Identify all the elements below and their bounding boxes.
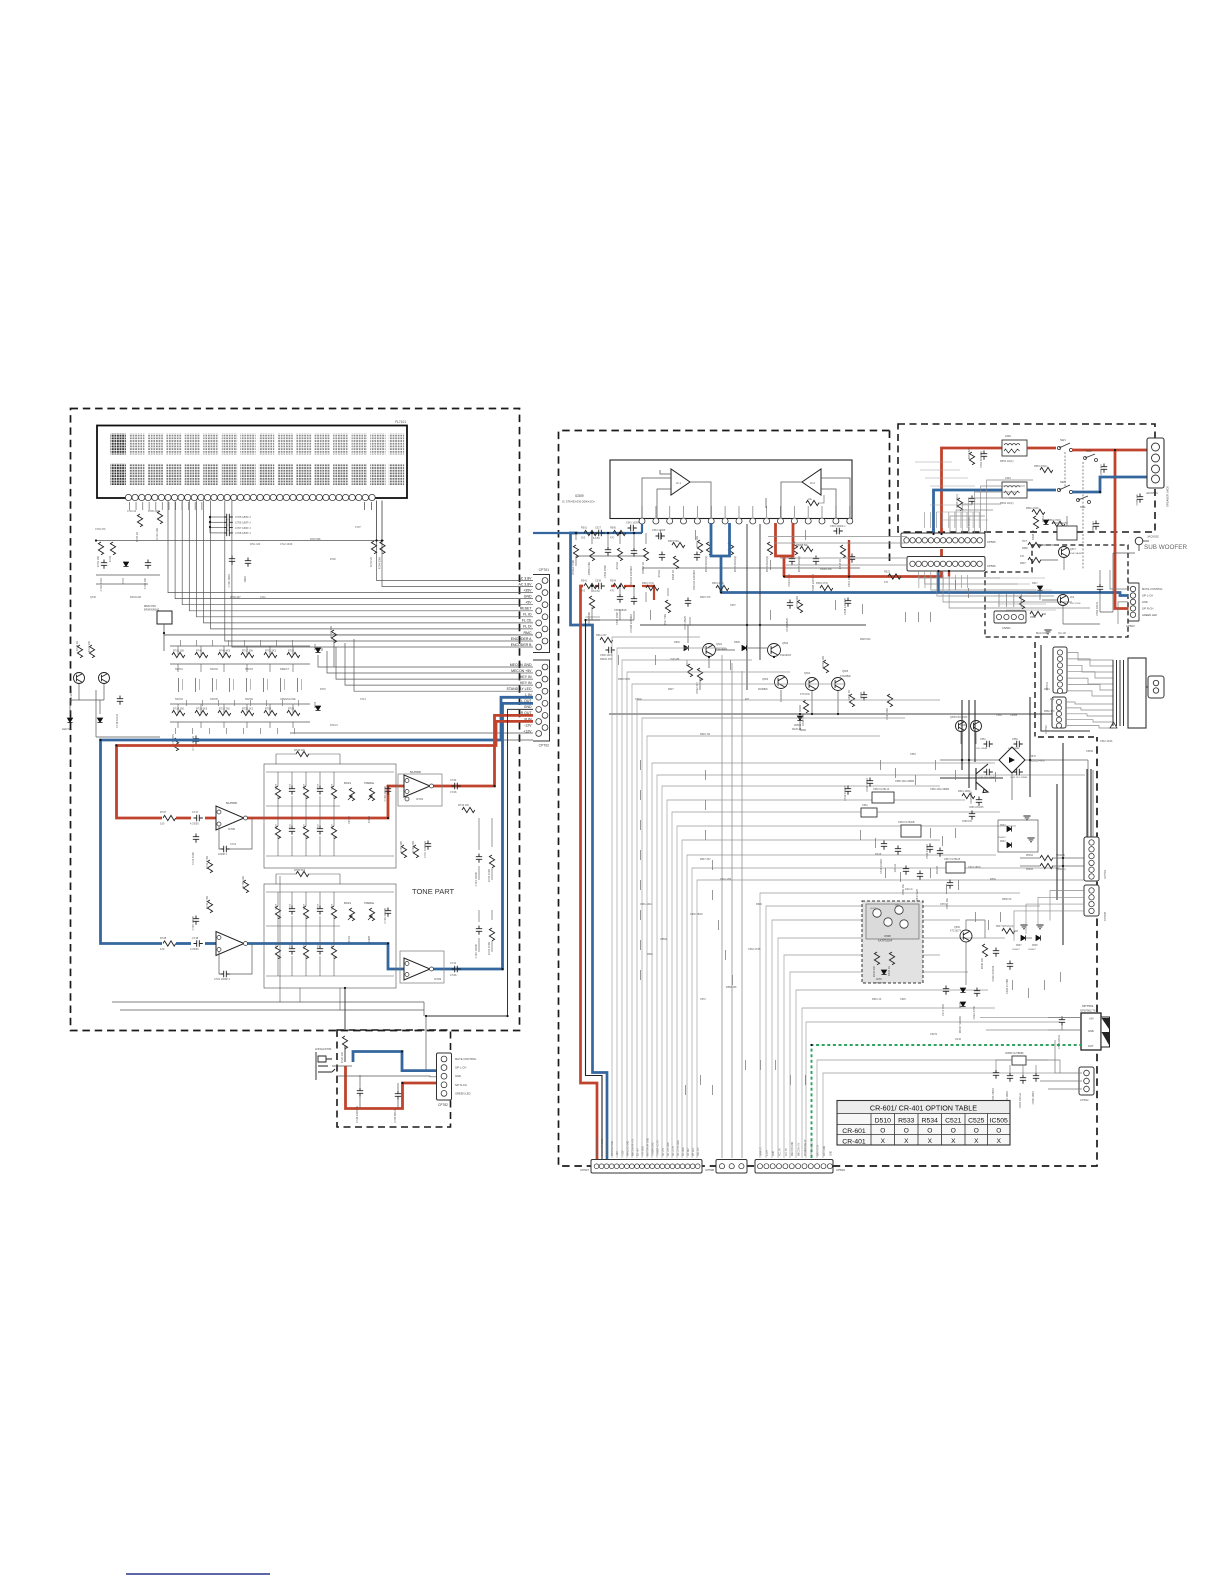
wire optical (green dashed) bbox=[812, 1045, 1082, 1158]
capacitor C744 bbox=[476, 854, 482, 863]
svg-text:C558 100n-56MM: C558 100n-56MM bbox=[895, 780, 914, 783]
svg-text:FL ID: FL ID bbox=[523, 613, 532, 617]
wire red speaker R run bbox=[784, 549, 942, 577]
svg-text:CP507: CP507 bbox=[580, 1168, 589, 1172]
resistor R743 bbox=[462, 807, 475, 812]
svg-text:470: 470 bbox=[884, 581, 889, 584]
svg-text:R517 5K3: R517 5K3 bbox=[663, 613, 667, 625]
resistor R530A bbox=[573, 545, 578, 558]
resistor R535 bbox=[1040, 855, 1053, 860]
transistor Q509 bbox=[971, 721, 982, 732]
svg-text:100n-K: 100n-K bbox=[905, 888, 913, 891]
svg-text:R516 47(1): R516 47(1) bbox=[642, 582, 654, 585]
svg-text:GND: GND bbox=[524, 594, 532, 598]
svg-text:D2 GND: D2 GND bbox=[683, 1147, 685, 1156]
wire blue tone stage1 bbox=[176, 942, 191, 945]
resistor R704 bbox=[110, 542, 115, 555]
capacitor C519 bbox=[881, 841, 887, 850]
connector CP509 bbox=[755, 1160, 845, 1174]
diode D540 bbox=[960, 988, 965, 992]
svg-text:C551: C551 bbox=[980, 738, 986, 741]
resistor R512 bbox=[706, 542, 711, 555]
svg-text:JACK501: JACK501 bbox=[1146, 491, 1158, 495]
svg-text:C527b: C527b bbox=[930, 1033, 938, 1036]
wire bbox=[1040, 591, 1100, 624]
svg-text:SW701: SW701 bbox=[175, 668, 184, 671]
svg-text:R596: R596 bbox=[1022, 547, 1028, 550]
svg-text:IC505: IC505 bbox=[990, 1118, 1008, 1125]
svg-text:R759: R759 bbox=[265, 708, 272, 711]
svg-text:C560 100n-56MM: C560 100n-56MM bbox=[930, 788, 949, 791]
svg-text:O: O bbox=[974, 1128, 979, 1135]
capacitor C703 bbox=[145, 560, 151, 569]
connector CP50B bbox=[1084, 885, 1107, 921]
diode D507 bbox=[1021, 935, 1025, 940]
capacitor C533 bbox=[1007, 1073, 1013, 1082]
headphone board boundary (dashed) bbox=[337, 1030, 451, 1127]
op-amp ch.2 bbox=[802, 469, 821, 495]
wire bus to HP box bbox=[344, 988, 346, 1030]
svg-text:ENCODER B: ENCODER B bbox=[511, 643, 532, 647]
wire blue input segments bbox=[533, 532, 642, 534]
capacitor C552 bbox=[981, 451, 987, 460]
svg-text:C543 16V−39MM: C543 16V−39MM bbox=[1010, 777, 1027, 779]
svg-text:IC701: IC701 bbox=[416, 797, 424, 801]
svg-text:C722 1000P-J: C722 1000P-J bbox=[214, 978, 231, 981]
switch SW3 bbox=[1084, 457, 1087, 460]
svg-text:R752 100K: R752 100K bbox=[487, 942, 491, 955]
svg-text:OUT: OUT bbox=[1088, 1044, 1094, 1048]
capacitor C510B2 bbox=[631, 596, 637, 605]
wire bbox=[688, 625, 838, 730]
capacitor C549b bbox=[861, 692, 867, 701]
svg-text:R719 0: R719 0 bbox=[330, 724, 338, 727]
wire blue L501 to SW2 bbox=[1027, 489, 1056, 492]
resistor R720 bbox=[342, 1036, 347, 1049]
svg-text:47K: 47K bbox=[1020, 555, 1025, 558]
wire CP50B links bbox=[1014, 891, 1084, 941]
resistor R745 bbox=[195, 652, 208, 657]
svg-text:R533: R533 bbox=[898, 1118, 914, 1125]
svg-text:R597: R597 bbox=[1020, 562, 1026, 565]
svg-text:MOTOR VR GND: MOTOR VR GND bbox=[648, 1138, 650, 1156]
resistor R746 bbox=[218, 652, 231, 657]
svg-text:C712 16/16: C712 16/16 bbox=[280, 543, 293, 546]
pot VR703 BASS bbox=[349, 908, 354, 921]
connector CP702 bbox=[507, 660, 550, 748]
svg-text:C510B 220M/16: C510B 220M/16 bbox=[629, 613, 633, 632]
svg-text:R598 1K: R598 1K bbox=[1031, 530, 1035, 540]
resistor R516 bbox=[646, 585, 659, 590]
svg-text:KTC1627Y: KTC1627Y bbox=[950, 931, 962, 933]
wire blue into IC703 bbox=[205, 942, 216, 945]
svg-text:KTA08B2F: KTA08B2F bbox=[840, 675, 852, 678]
svg-text:ENCODER A: ENCODER A bbox=[511, 637, 532, 641]
switch SW2 bbox=[1057, 488, 1060, 491]
svg-text:Q508 KSC1740F: Q508 KSC1740F bbox=[950, 717, 968, 719]
svg-text:R513 6R23(1): R513 6R23(1) bbox=[733, 556, 737, 572]
wire blue IC703 out to IC702 bbox=[244, 944, 404, 970]
svg-text:C523 1B/16: C523 1B/16 bbox=[968, 866, 981, 869]
wire bbox=[344, 1046, 346, 1062]
svg-text:2K2: 2K2 bbox=[1050, 698, 1055, 701]
svg-text:C549 100/16: C549 100/16 bbox=[925, 843, 929, 858]
wire bbox=[1100, 553, 1135, 612]
capacitor C535 bbox=[993, 1070, 999, 1079]
svg-text:X: X bbox=[951, 1138, 956, 1145]
resistor R731 bbox=[207, 860, 212, 873]
capacitor C555 bbox=[1137, 494, 1143, 503]
wire bbox=[479, 818, 492, 952]
svg-text:18/25: 18/25 bbox=[332, 823, 334, 829]
svg-text:R523 47K: R523 47K bbox=[700, 596, 711, 599]
wire switch link (dashed) bbox=[1064, 452, 1066, 487]
svg-text:C555 1µF: C555 1µF bbox=[1135, 494, 1139, 506]
svg-text:R718 10K: R718 10K bbox=[329, 626, 333, 638]
svg-text:+5V: +5V bbox=[1089, 1017, 1094, 1021]
capacitor C716 bbox=[245, 558, 251, 567]
resistor R560 bbox=[613, 530, 626, 535]
svg-text:R534: R534 bbox=[922, 1118, 938, 1125]
capacitor C544 bbox=[789, 556, 795, 565]
svg-text:Q503: Q503 bbox=[762, 678, 769, 681]
svg-text:TUNER +13.5V: TUNER +13.5V bbox=[658, 1140, 660, 1156]
capacitor C721 bbox=[193, 834, 199, 843]
bottom dashed edge already drawn; connector CP507 bbox=[580, 1160, 702, 1174]
resistor R518 bbox=[820, 585, 833, 590]
svg-text:C561: C561 bbox=[862, 804, 868, 807]
resistor R718 bbox=[331, 630, 336, 643]
svg-text:WR22(1): WR22(1) bbox=[1056, 855, 1065, 857]
resistor R553b bbox=[969, 452, 974, 465]
wire red headphone R bbox=[346, 1066, 438, 1109]
svg-text:CP505: CP505 bbox=[987, 540, 996, 544]
wire bbox=[70, 684, 104, 714]
capacitor C745 bbox=[476, 926, 482, 935]
svg-text:18/25: 18/25 bbox=[318, 823, 320, 829]
svg-text:Q517: Q517 bbox=[1070, 548, 1077, 551]
svg-text:STAND BY LED: STAND BY LED bbox=[507, 687, 532, 691]
svg-text:R530B 56K: R530B 56K bbox=[587, 612, 591, 626]
svg-text:18/25: 18/25 bbox=[332, 943, 334, 949]
svg-text:R547 4K7: R547 4K7 bbox=[700, 858, 711, 861]
keyboard extra marks bbox=[175, 640, 299, 734]
capacitor C538 bbox=[596, 583, 605, 589]
wire IC700 feedback bbox=[219, 818, 252, 849]
svg-text:R712 760: R712 760 bbox=[219, 708, 230, 711]
svg-text:AC 3.8V: AC 3.8V bbox=[518, 576, 532, 580]
wire hp gnd bbox=[1041, 645, 1090, 731]
svg-text:KEY IN: KEY IN bbox=[520, 675, 532, 679]
svg-text:1K/58: 1K/58 bbox=[318, 903, 320, 910]
svg-text:OPTICAL OUT: OPTICAL OUT bbox=[810, 1140, 813, 1156]
svg-text:GND: GND bbox=[1142, 600, 1148, 604]
svg-text:R758: R758 bbox=[288, 708, 295, 711]
wire CP503 misc bbox=[1110, 570, 1128, 624]
svg-text:R536A: R536A bbox=[1026, 868, 1033, 871]
svg-text:C570: C570 bbox=[940, 903, 946, 906]
svg-text:R519 3K3: R519 3K3 bbox=[795, 595, 799, 607]
wire CP505 feed lines left bbox=[768, 537, 907, 566]
svg-text:C539 180P: C539 180P bbox=[603, 565, 607, 578]
svg-text:R793 22: R793 22 bbox=[369, 556, 373, 566]
capacitor C510A bbox=[631, 548, 637, 557]
wire blue IC702 out to CP702 L IN bbox=[430, 703, 533, 969]
svg-text:TONE PART: TONE PART bbox=[412, 887, 455, 896]
svg-text:R581: R581 bbox=[1044, 688, 1050, 691]
resistor R727 bbox=[163, 815, 176, 820]
resistor R717 bbox=[241, 652, 254, 657]
diode D500 bbox=[684, 645, 688, 650]
resistor R721 bbox=[89, 645, 94, 658]
wire red SW1 to jack and CP503 bbox=[1072, 450, 1151, 609]
capacitor C718 bbox=[194, 940, 203, 946]
svg-text:MECON VR +5V: MECON VR +5V bbox=[632, 1138, 634, 1156]
svg-text:R555 1K(C): R555 1K(C) bbox=[955, 494, 959, 508]
svg-text:SW2: SW2 bbox=[1060, 480, 1066, 484]
capacitor C569 bbox=[947, 880, 953, 889]
wire blue L-ch input from CP507 bbox=[571, 533, 608, 1160]
svg-text:C538: C538 bbox=[595, 580, 602, 583]
svg-text:C516 1B/25: C516 1B/25 bbox=[785, 617, 789, 631]
svg-text:2K2: 2K2 bbox=[581, 537, 586, 540]
block C563 KA7520B bbox=[901, 825, 921, 837]
diode D701 bbox=[123, 562, 128, 566]
wire fan CP509 to circuits bbox=[760, 893, 1060, 1158]
wire CP502 links bbox=[1040, 1040, 1082, 1089]
rail under display bbox=[96, 540, 384, 542]
svg-text:BASS: BASS bbox=[344, 901, 351, 905]
svg-text:R702 10K: R702 10K bbox=[155, 528, 159, 540]
misc reference labels bbox=[90, 510, 1113, 1041]
op-amp IC703 bbox=[216, 932, 244, 956]
wire bbox=[1048, 1016, 1081, 1030]
connector CP506 bbox=[907, 557, 996, 572]
component ECT705 bbox=[173, 738, 178, 751]
wire red L502 to SW1 bbox=[1027, 447, 1056, 450]
svg-text:1N4887: 1N4887 bbox=[1028, 949, 1036, 951]
svg-text:C567 KA78L05: C567 KA78L05 bbox=[944, 858, 961, 861]
resistor R530B bbox=[589, 596, 594, 609]
headphone jack contacts bbox=[1113, 658, 1148, 728]
diode D546 bbox=[960, 1002, 965, 1006]
capacitor C501 bbox=[849, 554, 855, 563]
capacitor C543 bbox=[656, 533, 665, 539]
svg-text:R749 23K: R749 23K bbox=[411, 841, 415, 853]
svg-text:R709 4K7: R709 4K7 bbox=[230, 596, 241, 599]
capacitor C709 bbox=[229, 556, 235, 565]
svg-text:SW706: SW706 bbox=[245, 698, 254, 701]
svg-text:R714 390: R714 390 bbox=[173, 708, 184, 711]
svg-text:C568 16V: C568 16V bbox=[962, 821, 973, 823]
svg-text:C558b: C558b bbox=[1010, 714, 1018, 717]
svg-text:R549: R549 bbox=[756, 903, 762, 906]
svg-text:KSE1940F: KSE1940F bbox=[780, 655, 792, 657]
svg-text:SAIR ST: SAIR ST bbox=[760, 1146, 763, 1156]
wire blue speaker L run bbox=[721, 556, 1129, 596]
resistor R564b bbox=[1052, 521, 1065, 526]
svg-text:CP508: CP508 bbox=[705, 1168, 714, 1172]
svg-text:R554 1Ω(C): R554 1Ω(C) bbox=[1000, 502, 1014, 505]
coil L501 bbox=[1002, 482, 1027, 498]
svg-text:D703: D703 bbox=[313, 643, 317, 650]
warning mark bbox=[1110, 722, 1117, 728]
svg-text:C718: C718 bbox=[192, 936, 199, 940]
resistor R596 bbox=[1028, 542, 1041, 547]
svg-text:4K7: 4K7 bbox=[745, 698, 750, 701]
capacitor C717 bbox=[194, 815, 203, 821]
wire PSU verticals bbox=[940, 732, 1093, 838]
capacitor C543b bbox=[1014, 769, 1023, 775]
svg-text:8.1/50: 8.1/50 bbox=[593, 590, 600, 593]
wire CP505 fan up bbox=[950, 480, 1033, 533]
capacitor C565 bbox=[1101, 464, 1107, 473]
svg-text:D509: D509 bbox=[734, 641, 740, 644]
svg-text:C545 1B/25: C545 1B/25 bbox=[614, 609, 627, 612]
svg-text:R508B 56k: R508B 56k bbox=[796, 544, 809, 547]
svg-text:C529 47/16M: C529 47/16M bbox=[991, 966, 995, 982]
svg-text:R530 1K: R530 1K bbox=[847, 690, 851, 700]
svg-text:KA78T533AF: KA78T533AF bbox=[878, 940, 893, 943]
svg-text:X: X bbox=[881, 1138, 886, 1145]
ground bbox=[1020, 925, 1027, 929]
pot VR704 TREBLE bbox=[369, 908, 374, 921]
svg-text:GND: GND bbox=[524, 705, 532, 709]
svg-text:KEY IN: KEY IN bbox=[520, 681, 532, 685]
svg-text:RMC700: RMC700 bbox=[144, 604, 156, 608]
svg-text:S/P R-CH: S/P R-CH bbox=[1142, 606, 1153, 610]
pot VR702 BASS bbox=[349, 788, 354, 801]
svg-text:C534 100n-K: C534 100n-K bbox=[1018, 1093, 1022, 1109]
capacitor C571 bbox=[943, 986, 949, 995]
svg-text:C527: C527 bbox=[595, 527, 602, 530]
svg-text:SIG-NO: SIG-NO bbox=[1058, 633, 1066, 635]
svg-text:C510A5 220M/16: C510A5 220M/16 bbox=[629, 565, 633, 586]
wire power rails bbox=[940, 697, 1091, 945]
tone network frame L-ch bbox=[264, 884, 396, 988]
svg-text:C748 2200P-K: C748 2200P-K bbox=[355, 1106, 359, 1123]
svg-text:C725 1000P: C725 1000P bbox=[191, 916, 195, 931]
svg-text:1000P-J: 1000P-J bbox=[218, 853, 228, 856]
svg-text:D547: D547 bbox=[1030, 755, 1037, 758]
resistor R544 bbox=[849, 694, 854, 707]
svg-text:JACK502: JACK502 bbox=[1147, 535, 1159, 539]
svg-text:R710 15K: R710 15K bbox=[173, 650, 184, 653]
svg-text:R529 10K: R529 10K bbox=[821, 656, 825, 668]
svg-text:R746 4K9: R746 4K9 bbox=[219, 650, 231, 653]
wire bbox=[1020, 858, 1084, 866]
resistor R712 bbox=[218, 710, 231, 715]
resistor R513 bbox=[728, 542, 733, 555]
svg-text:D508: D508 bbox=[1032, 945, 1038, 947]
svg-text:RY501 DEC5V: RY501 DEC5V bbox=[1052, 522, 1068, 525]
svg-text:R519 47(1): R519 47(1) bbox=[712, 582, 724, 585]
wire fan CP508 bbox=[722, 655, 742, 1158]
svg-text:X: X bbox=[997, 1138, 1002, 1145]
svg-text:2K2: 2K2 bbox=[1070, 596, 1075, 599]
wire red IC700 out to IC701 bbox=[244, 786, 404, 818]
capacitor C504 bbox=[834, 528, 843, 534]
svg-text:CR-601: CR-601 bbox=[842, 1128, 866, 1135]
svg-text:R542 4K7: R542 4K7 bbox=[695, 681, 699, 693]
connector CP782 bbox=[437, 1053, 478, 1107]
headphone jack H/P JACK781 bbox=[316, 1052, 335, 1080]
wire tone rails bottom bbox=[112, 1002, 426, 1070]
svg-text:C717: C717 bbox=[192, 810, 199, 814]
svg-text:R720 100: R720 100 bbox=[340, 1051, 344, 1063]
resistor R514 bbox=[767, 542, 772, 555]
svg-text:ZD502: ZD502 bbox=[794, 724, 802, 727]
svg-text:D704: D704 bbox=[313, 701, 317, 708]
svg-text:C551 600M(K): C551 600M(K) bbox=[967, 516, 971, 533]
svg-text:4.33/50: 4.33/50 bbox=[190, 822, 199, 826]
capacitor C715 bbox=[193, 736, 199, 745]
capacitor C748 bbox=[357, 1088, 363, 1097]
resistor R536 bbox=[1040, 863, 1053, 868]
svg-text:R522: R522 bbox=[884, 571, 891, 574]
svg-text:R545 1W: R545 1W bbox=[700, 733, 711, 736]
sub woofer jack JACK502 bbox=[1135, 537, 1143, 545]
resistor R563 bbox=[1040, 467, 1053, 472]
svg-text:R534 1K: R534 1K bbox=[887, 966, 891, 976]
headphone jack body bbox=[1148, 676, 1164, 698]
capacitor C522 bbox=[974, 988, 980, 997]
svg-text:R705 1K: R705 1K bbox=[135, 532, 139, 542]
misc vertical smudges bbox=[618, 530, 1061, 1095]
svg-text:BASS: BASS bbox=[344, 781, 351, 785]
svg-text:O: O bbox=[904, 1128, 909, 1135]
capacitor C548 bbox=[845, 598, 851, 607]
wire red speaker R U-loop bbox=[776, 523, 794, 556]
svg-text:ch.2: ch.2 bbox=[810, 481, 815, 485]
svg-text:470: 470 bbox=[610, 537, 615, 540]
FL display FL7101 bbox=[97, 420, 407, 498]
svg-text:R518 47(1): R518 47(1) bbox=[816, 582, 828, 585]
svg-text:C571 1/50: C571 1/50 bbox=[941, 1003, 945, 1016]
svg-text:GND: GND bbox=[1088, 1029, 1094, 1033]
svg-text:R537 A5737(1/4): R537 A5737(1/4) bbox=[996, 925, 1014, 928]
optical out OPT501 bbox=[1080, 1004, 1110, 1050]
svg-text:18/16: 18/16 bbox=[243, 575, 247, 582]
transistor Q504 bbox=[806, 678, 819, 691]
svg-text:C709 16/16: C709 16/16 bbox=[227, 573, 231, 587]
svg-text:C504 1000P-J: C504 1000P-J bbox=[830, 525, 846, 528]
svg-text:18AF-48W: 18AF-48W bbox=[874, 982, 885, 985]
wire ch.2 loops bbox=[766, 478, 850, 518]
wire red tone bbox=[176, 817, 216, 820]
rectifier diode block bbox=[998, 816, 1038, 852]
svg-text:C535 1B/16: C535 1B/16 bbox=[991, 1087, 995, 1101]
wire red IC701 out to CP702 R OUT bbox=[430, 715, 533, 786]
capacitor C783 bbox=[395, 1091, 401, 1100]
op-amp ch.1 bbox=[671, 469, 690, 495]
svg-text:18/25: 18/25 bbox=[276, 823, 278, 829]
svg-text:IC505 CU7806F: IC505 CU7806F bbox=[1005, 1051, 1024, 1055]
svg-text:CD +3.3V: CD +3.3V bbox=[673, 1146, 675, 1156]
svg-text:1K/58: 1K/58 bbox=[332, 783, 334, 790]
transistor Q508 bbox=[956, 721, 967, 732]
svg-text:CP510: CP510 bbox=[1044, 725, 1048, 734]
connector CN501 bbox=[994, 594, 1026, 630]
svg-text:Q505: Q505 bbox=[842, 670, 849, 673]
resistor R710 bbox=[172, 652, 185, 657]
svg-text:R703 100: R703 100 bbox=[96, 555, 100, 567]
svg-text:16V−39MM: 16V−39MM bbox=[976, 748, 987, 750]
block C567 KA78L05 bbox=[946, 862, 965, 873]
resistor R702 bbox=[157, 511, 162, 524]
svg-text:MUTE CONTROL: MUTE CONTROL bbox=[1142, 587, 1163, 591]
svg-text:VIN: VIN bbox=[895, 905, 899, 907]
